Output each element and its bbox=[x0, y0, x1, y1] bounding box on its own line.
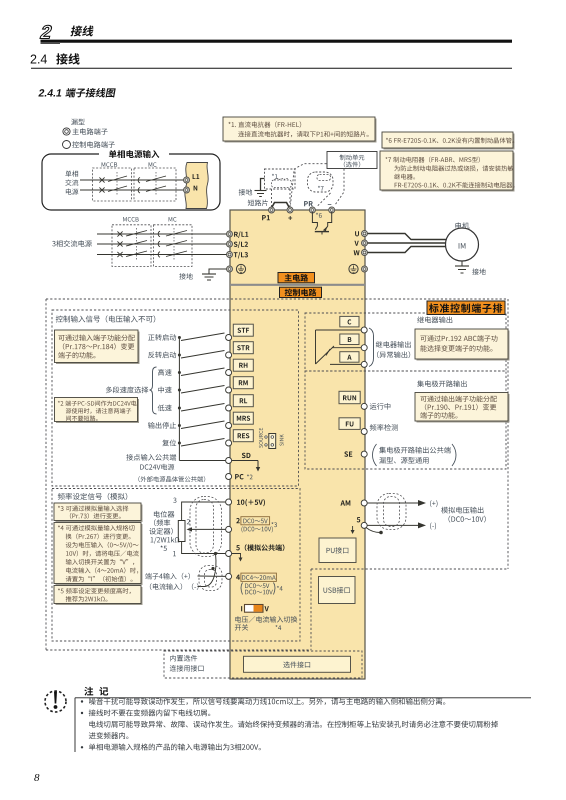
terminal PC bbox=[226, 474, 253, 480]
terminal circle RES bbox=[226, 440, 232, 446]
MC dashed box (3ph) bbox=[154, 225, 193, 267]
wire W to motor bbox=[368, 247, 446, 253]
potentiometer bbox=[173, 498, 190, 557]
svg-text:2.4: 2.4 bbox=[30, 53, 47, 67]
relay terminal circle B bbox=[361, 345, 367, 351]
terminal box FU bbox=[339, 418, 360, 430]
wire 4-input minus to 5 bbox=[198, 552, 218, 587]
MCCB dashed box (3ph) bbox=[112, 225, 151, 267]
terminal SE bbox=[344, 451, 367, 457]
option interface box bbox=[244, 656, 351, 672]
MC contact poles (3ph) bbox=[158, 228, 187, 261]
relay terminal circle A bbox=[361, 361, 367, 367]
legend main-circuit terminal symbol bbox=[63, 128, 108, 135]
wire pot 3 to 10 bbox=[182, 502, 226, 521]
note box *4 bbox=[54, 523, 143, 586]
wire R phase bbox=[97, 233, 226, 235]
I/V switch bbox=[241, 605, 269, 613]
terminal 4 bbox=[226, 573, 283, 594]
inverter main block bbox=[230, 210, 365, 679]
contact input common bus bbox=[178, 338, 180, 461]
terminal box STF bbox=[233, 324, 253, 336]
label 控制电路 bbox=[280, 287, 322, 297]
note title bbox=[84, 687, 108, 696]
relay contact symbol bbox=[316, 330, 362, 364]
breaker poles (1ph) bbox=[99, 172, 127, 196]
chapter number 2 glyph bbox=[38, 23, 54, 44]
switch STF bbox=[178, 333, 225, 341]
dashed link brake unit to + bbox=[291, 164, 327, 205]
terminal - bbox=[328, 204, 335, 213]
wire T phase bbox=[97, 254, 226, 256]
torn strip with L1 N terminals bbox=[184, 163, 209, 209]
jumper 短路片 bbox=[248, 200, 290, 208]
note bullet 1 bbox=[81, 698, 445, 705]
wire U to motor bbox=[368, 234, 446, 240]
3-phase source label bbox=[52, 240, 92, 247]
MC label (3ph) bbox=[169, 217, 177, 222]
note line 4 bbox=[89, 732, 129, 739]
input label RM bbox=[158, 387, 171, 394]
terminal box MRS bbox=[233, 412, 253, 424]
MC label (1ph) bbox=[149, 162, 157, 167]
input label RL bbox=[158, 405, 172, 412]
terminal circle RL bbox=[226, 405, 232, 411]
AM shield bbox=[377, 494, 406, 530]
SOURCE/SINK jumper bbox=[259, 428, 284, 449]
relay output section dashed box bbox=[305, 313, 506, 371]
legend title bbox=[71, 119, 84, 125]
svg-text:8: 8 bbox=[34, 772, 40, 784]
terminal S/L2 bbox=[227, 241, 248, 248]
terminal box STR bbox=[233, 342, 253, 354]
terminal box RES bbox=[233, 430, 253, 442]
block ground terminal right bbox=[349, 264, 368, 273]
input label STF bbox=[148, 334, 176, 341]
SE label with parens bbox=[373, 444, 457, 466]
I/V switch label bbox=[235, 616, 297, 631]
wire AM plus bbox=[367, 500, 437, 507]
note box *1 DC reactor bbox=[223, 117, 377, 143]
input ground bbox=[179, 269, 226, 280]
wire pot 1 to 5 bbox=[182, 542, 226, 554]
wire S phase bbox=[97, 243, 226, 245]
terminal box RUN bbox=[339, 391, 360, 403]
control input title bbox=[56, 315, 156, 322]
label 主电路 bbox=[278, 273, 315, 283]
terminal SD bbox=[226, 453, 251, 464]
dashed resistor *7 bbox=[308, 172, 334, 207]
OC section title bbox=[417, 380, 466, 387]
block ground terminal left bbox=[227, 264, 246, 273]
section 2.4 接线 bbox=[30, 53, 512, 69]
legend control-circuit terminal symbol bbox=[63, 141, 115, 149]
wire L1 (1ph) bbox=[80, 179, 187, 181]
terminal 5 right bbox=[357, 517, 368, 528]
note line 3 bbox=[89, 721, 497, 728]
svg-text:2.4.1: 2.4.1 bbox=[37, 88, 63, 100]
terminal circle FU bbox=[361, 424, 398, 434]
multi-speed brace bbox=[150, 367, 157, 414]
MC dashed box (1ph) bbox=[134, 168, 176, 201]
wire V to motor bbox=[368, 242, 446, 244]
MCCB label (1ph) bbox=[102, 162, 118, 167]
terminal R/L1 bbox=[227, 231, 249, 238]
switch STR bbox=[178, 351, 225, 359]
pot shield bbox=[190, 497, 222, 557]
terminal U bbox=[355, 231, 367, 237]
label 标准控制端子排 bbox=[427, 301, 505, 315]
terminal box RL bbox=[233, 395, 253, 407]
note box *6 bbox=[382, 132, 515, 150]
terminal V bbox=[354, 240, 367, 246]
motor ground bbox=[455, 261, 486, 275]
frequency section dashed box bbox=[52, 489, 300, 642]
relay terminal circle C bbox=[361, 327, 367, 333]
top ground bbox=[239, 179, 267, 197]
page number bbox=[34, 772, 40, 784]
terminal + bbox=[287, 207, 293, 220]
wire N (1ph) bbox=[80, 189, 187, 191]
switch RES bbox=[178, 439, 225, 447]
terminal PR bbox=[304, 201, 315, 213]
wire 5 minus bbox=[366, 522, 436, 534]
input label STR bbox=[148, 352, 176, 359]
wire pot wiper to 2 bbox=[187, 527, 226, 531]
switch RL bbox=[178, 404, 225, 412]
switch MRS bbox=[178, 421, 225, 429]
4-input shield bbox=[199, 566, 222, 591]
relay terminal box A bbox=[340, 352, 359, 363]
brake transistor *6 bbox=[312, 212, 331, 235]
terminal circle STR bbox=[226, 352, 232, 358]
terminal box RH bbox=[233, 359, 253, 371]
relay terminal box C bbox=[340, 316, 359, 327]
main/control divider bbox=[230, 284, 365, 286]
motor IM bbox=[446, 222, 479, 261]
switch RM bbox=[178, 386, 225, 394]
MCCB label (3ph) bbox=[123, 217, 139, 222]
note bullet 2 bbox=[81, 709, 210, 716]
note box *7 brake resistor bbox=[380, 151, 515, 192]
DC reactor dashed box *1 bbox=[265, 169, 296, 207]
single-phase input rounded box bbox=[42, 149, 220, 210]
MCCB dashed box (1ph) bbox=[93, 168, 132, 201]
terminal circle RH bbox=[226, 370, 232, 376]
terminal circle STF bbox=[226, 335, 232, 341]
terminal circle RM bbox=[226, 387, 232, 393]
note box *5 bbox=[54, 586, 143, 606]
terminal 5 bbox=[226, 544, 285, 561]
relay output label bbox=[376, 341, 411, 358]
single-phase source label bbox=[65, 170, 78, 194]
AM inner arrow bbox=[351, 526, 355, 534]
input common label bbox=[126, 454, 176, 461]
note icon bbox=[45, 691, 66, 712]
relay section title bbox=[417, 316, 452, 323]
PU interface box bbox=[319, 538, 356, 563]
note box *3 bbox=[54, 503, 143, 522]
open collector section dashed box bbox=[305, 371, 506, 469]
SD wire bbox=[179, 461, 260, 472]
note rules bbox=[75, 698, 531, 752]
terminal 4 input labels bbox=[145, 573, 198, 590]
dashed link brake unit to - bbox=[335, 169, 344, 205]
control input section dashed box bbox=[52, 310, 299, 486]
relay bracket bbox=[369, 328, 374, 367]
terminal T/L3 bbox=[227, 252, 248, 259]
relay terminal box B bbox=[340, 334, 359, 345]
brake unit option box bbox=[327, 152, 377, 169]
relay note box bbox=[415, 329, 510, 361]
terminal AM bbox=[340, 500, 367, 506]
input label MRS bbox=[148, 422, 176, 429]
terminal P1 bbox=[262, 207, 274, 220]
note bullet 3 bbox=[81, 744, 261, 751]
terminal circle MRS bbox=[226, 423, 232, 429]
chapter title 接线 bbox=[70, 25, 94, 36]
terminal box RM bbox=[233, 377, 253, 389]
section 2.4.1 端子接线图 bbox=[37, 88, 115, 100]
note box *2 bbox=[55, 398, 140, 424]
potentiometer labels bbox=[149, 511, 179, 551]
wire 4-input plus bbox=[198, 575, 226, 577]
DC24V label bbox=[138, 464, 205, 482]
breaker poles (3ph) bbox=[117, 228, 147, 261]
terminal W bbox=[354, 250, 368, 256]
note box Pr178-184 bbox=[55, 330, 140, 364]
built-in option dashed box bbox=[164, 651, 362, 678]
MC contact poles (1ph) bbox=[138, 172, 166, 196]
freq section title bbox=[58, 493, 128, 500]
control area outer dashed frame bbox=[46, 299, 508, 650]
terminal 10 bbox=[226, 499, 265, 506]
switch RH bbox=[178, 368, 225, 376]
input label RES bbox=[162, 440, 176, 447]
analog output label bbox=[441, 507, 486, 523]
chapter rule bbox=[41, 41, 513, 43]
terminal 2 bbox=[226, 517, 277, 533]
multi-speed label bbox=[106, 387, 148, 394]
USB interface box bbox=[319, 577, 356, 604]
OC note box bbox=[415, 393, 510, 423]
input label RH bbox=[158, 369, 172, 376]
terminal circle RUN bbox=[361, 403, 390, 410]
